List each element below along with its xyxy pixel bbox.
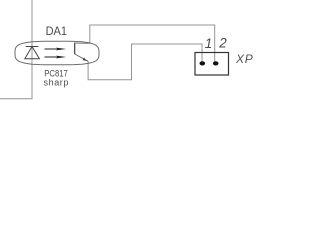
svg-text:1: 1 [205,36,213,51]
svg-text:sharp: sharp [44,78,70,88]
svg-text:DA1: DA1 [46,24,67,38]
svg-text:XP: XP [235,52,254,66]
svg-text:2: 2 [218,35,227,50]
